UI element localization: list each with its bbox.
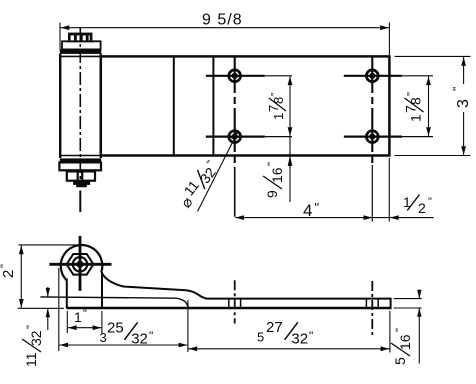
svg-text:2: 2 (418, 200, 426, 216)
svg-text:1: 1 (271, 113, 286, 120)
pin centerline tail below nut (79, 191, 81, 213)
svg-text:32: 32 (131, 331, 148, 348)
svg-text:16: 16 (397, 334, 413, 350)
svg-text:": " (406, 92, 418, 96)
svg-text:32: 32 (197, 164, 219, 186)
svg-text:": " (309, 329, 313, 343)
hole B1 (366, 70, 378, 82)
hole A2 (229, 131, 241, 143)
strap middle edge line (40, 297, 188, 308)
barrel top thick band (60, 50, 101, 54)
dimension 1/2 inch (373, 217, 390, 219)
svg-text:27: 27 (266, 319, 283, 336)
pin top cap washer (62, 41, 101, 49)
knuckle crosshair horizontal (49, 263, 111, 266)
svg-text:32: 32 (28, 330, 44, 346)
dimension 3 inch right (395, 55, 471, 57)
strap right end (390, 298, 392, 310)
svg-text:1: 1 (74, 309, 82, 325)
plate top edge across barrel (60, 55, 101, 57)
svg-text:25: 25 (107, 320, 124, 337)
hole A1 (229, 70, 241, 82)
label 1 7/8 left (266, 92, 286, 120)
svg-text:": " (25, 325, 37, 329)
knuckle circle (61, 245, 103, 281)
hex nut (67, 254, 94, 275)
svg-text:16: 16 (269, 167, 285, 183)
svg-text:": " (394, 328, 406, 332)
knuckle crosshair vertical (79, 236, 82, 291)
dimension 3 25/32 (58, 268, 60, 351)
pin bottom nut end blob (73, 182, 89, 187)
label 11/32 bottom left (22, 325, 44, 367)
svg-text:": " (315, 200, 320, 215)
dimension 1 7/8 right column (428, 76, 430, 136)
label 5/16 (391, 328, 413, 365)
nut ring (73, 257, 87, 271)
dimension 1 7/8 left column (289, 76, 291, 136)
dimension 5/16 (394, 298, 422, 300)
svg-text:3: 3 (455, 99, 472, 108)
dimension 9 5/8 overall width (60, 23, 389, 56)
hole crosshair row2 col1 (206, 136, 265, 138)
side hole centerline 2 (371, 281, 373, 337)
svg-text:3: 3 (100, 330, 107, 345)
label diameter 11/32 (174, 157, 223, 212)
wrap left edge (66, 279, 68, 309)
nut center dot (76, 261, 83, 268)
strap top profile (102, 273, 391, 299)
dimension 1 inch (66, 311, 68, 333)
svg-text:5: 5 (392, 357, 408, 365)
svg-text:32: 32 (291, 331, 308, 348)
dimension 2 inch (19, 244, 79, 246)
hole centerline column 1 (234, 56, 236, 163)
label 1 7/8 right (403, 92, 424, 122)
hole B2 (366, 131, 378, 143)
barrel bottom band (60, 159, 101, 162)
dimension 9/16 (289, 137, 291, 202)
svg-text:2: 2 (0, 270, 17, 278)
svg-text:4: 4 (303, 201, 312, 220)
leader diameter 11/32 (198, 131, 239, 212)
extension line plate right edge down (388, 158, 390, 222)
svg-text:": " (270, 92, 281, 96)
svg-text:": " (83, 308, 87, 320)
dimension 5 27/32 (389, 311, 391, 353)
svg-text:": " (451, 87, 465, 91)
side hole centerline 1 (234, 280, 236, 323)
barrel body sides (59, 54, 61, 159)
svg-text:": " (0, 264, 11, 268)
label 2 inch (0, 264, 17, 278)
strap bottom line (66, 307, 390, 310)
svg-text:": " (428, 196, 432, 208)
hole crosshair row1 col1 (206, 75, 265, 77)
pin centerline (dash-dot) (79, 28, 81, 186)
svg-text:": " (149, 329, 153, 343)
svg-text:1: 1 (408, 114, 424, 122)
dimension 4 inch (235, 217, 372, 219)
svg-text:11: 11 (23, 352, 39, 367)
hole crosshair row2 col2 (344, 136, 402, 138)
svg-text:8: 8 (408, 97, 424, 105)
label 3 inch (451, 87, 473, 108)
pin bottom cap washer (59, 162, 101, 170)
plate outline (top view) (101, 56, 390, 155)
svg-text:8: 8 (271, 97, 286, 104)
svg-text:5: 5 (257, 330, 264, 345)
hole centerline column 2 (371, 56, 373, 163)
svg-text:9: 9 (264, 190, 280, 198)
pin bottom castle nut (67, 171, 95, 180)
svg-text:": " (266, 162, 278, 166)
side hole 2 edges (365, 299, 367, 308)
label 9/16 (263, 162, 285, 198)
plate bottom edge across barrel (60, 155, 101, 157)
wrap right edge (101, 272, 103, 308)
svg-text:9 5/8: 9 5/8 (202, 11, 243, 28)
side hole 1 edges (228, 299, 230, 308)
bend line 1 (173, 56, 175, 155)
hole crosshair row1 col2 (344, 75, 402, 77)
bend line 2 (212, 56, 214, 155)
dimension 11/32 (47, 287, 49, 297)
hinge pin top castle nut (66, 33, 94, 43)
